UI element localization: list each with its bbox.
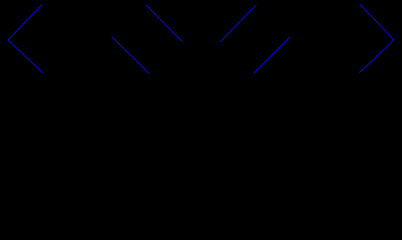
lower backslash stroke C	[112, 37, 149, 73]
right chevron	[360, 5, 395, 73]
left chevron	[8, 5, 43, 73]
lower slash stroke F	[254, 37, 290, 73]
upper slash stroke E	[221, 5, 257, 42]
upper backslash stroke B	[146, 5, 182, 42]
